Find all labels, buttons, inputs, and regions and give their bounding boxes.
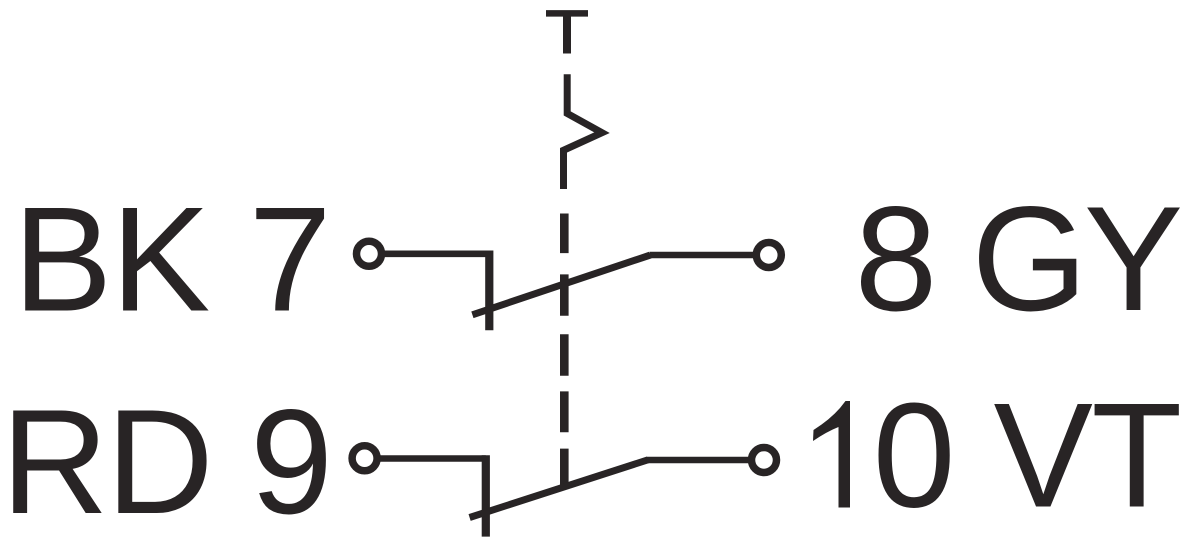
terminal node 7 bbox=[357, 241, 382, 266]
wire RD 9 to switch 2 bbox=[365, 455, 486, 462]
wire switch 1 to 8 GY bbox=[650, 252, 769, 259]
terminal node 8 bbox=[756, 243, 781, 268]
detent zigzag bbox=[564, 74, 603, 189]
terminal node 9 bbox=[352, 446, 377, 471]
actuator T button bbox=[546, 13, 588, 53]
wire switch 1 fixed contact vertical bbox=[485, 251, 493, 331]
mechanical link dashed line bbox=[560, 214, 569, 486]
svg-text:BK 7: BK 7 bbox=[13, 176, 330, 343]
terminal node 10 bbox=[752, 448, 777, 473]
switch 1 movable blade bbox=[472, 255, 650, 315]
svg-text:0 VT: 0 VT bbox=[873, 372, 1181, 539]
wire BK 7 to switch 1 bbox=[369, 251, 489, 258]
wire switch 2 fixed contact vertical bbox=[482, 455, 490, 536]
svg-text:8 GY: 8 GY bbox=[855, 175, 1181, 342]
svg-text:RD 9: RD 9 bbox=[1, 378, 330, 545]
label 10 VT : digit 1 bbox=[813, 401, 850, 508]
wire switch 2 to 10 VT bbox=[647, 457, 764, 464]
switch 2 movable blade bbox=[470, 460, 648, 518]
